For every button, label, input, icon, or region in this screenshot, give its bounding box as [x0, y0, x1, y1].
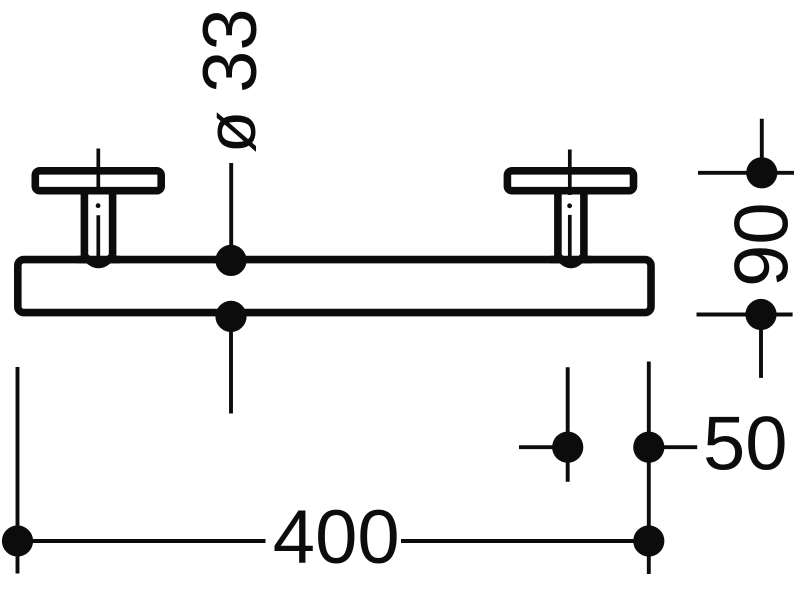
right mount post [558, 192, 584, 265]
400 dimension line right segment [401, 539, 649, 543]
50 dimension left dot [552, 432, 583, 463]
90 dimension bottom vertical line [759, 315, 763, 378]
50 dimension right dot [633, 432, 664, 463]
right mount center line lower dash [568, 215, 572, 261]
90 dimension top dot [746, 157, 777, 188]
400 dimension line left segment [18, 539, 266, 543]
svg-text:50: 50 [703, 402, 788, 487]
left mount center line lower dash [96, 215, 100, 262]
left mount post [84, 192, 112, 265]
50 dimension right vertical line [647, 362, 651, 575]
bar top edge through right post [551, 256, 592, 264]
left mount center line dot [96, 203, 101, 208]
svg-text:90: 90 [719, 202, 804, 287]
diameter leader line [229, 163, 233, 260]
svg-text:400: 400 [273, 495, 400, 580]
right mount center line dot [567, 203, 572, 208]
50 dimension left horizontal line [519, 445, 568, 449]
svg-text:33: 33 [188, 8, 273, 93]
extension line below bar bottom dot [229, 316, 233, 413]
50 dimension left vertical line [566, 367, 570, 482]
400 dimension right dot [633, 525, 664, 556]
400 dimension left dot [2, 525, 33, 556]
left mount center line upper dash [96, 149, 100, 195]
bar top edge through left post [77, 256, 120, 264]
svg-text:ø: ø [192, 111, 270, 154]
grab bar tube [18, 260, 651, 313]
90 dimension bottom dot [745, 299, 776, 330]
bar bottom dot [215, 301, 246, 332]
400 dimension left vertical line [16, 367, 20, 574]
right mount center line upper dash [568, 150, 572, 196]
diameter dot on bar top [215, 245, 246, 276]
90 dimension top vertical line [760, 119, 764, 173]
90 dimension bottom horizontal line [697, 313, 793, 317]
right mount flange [507, 171, 633, 191]
left mount flange [35, 171, 161, 191]
50 dimension right horizontal line [649, 445, 697, 449]
90 dimension top horizontal line [698, 171, 794, 175]
